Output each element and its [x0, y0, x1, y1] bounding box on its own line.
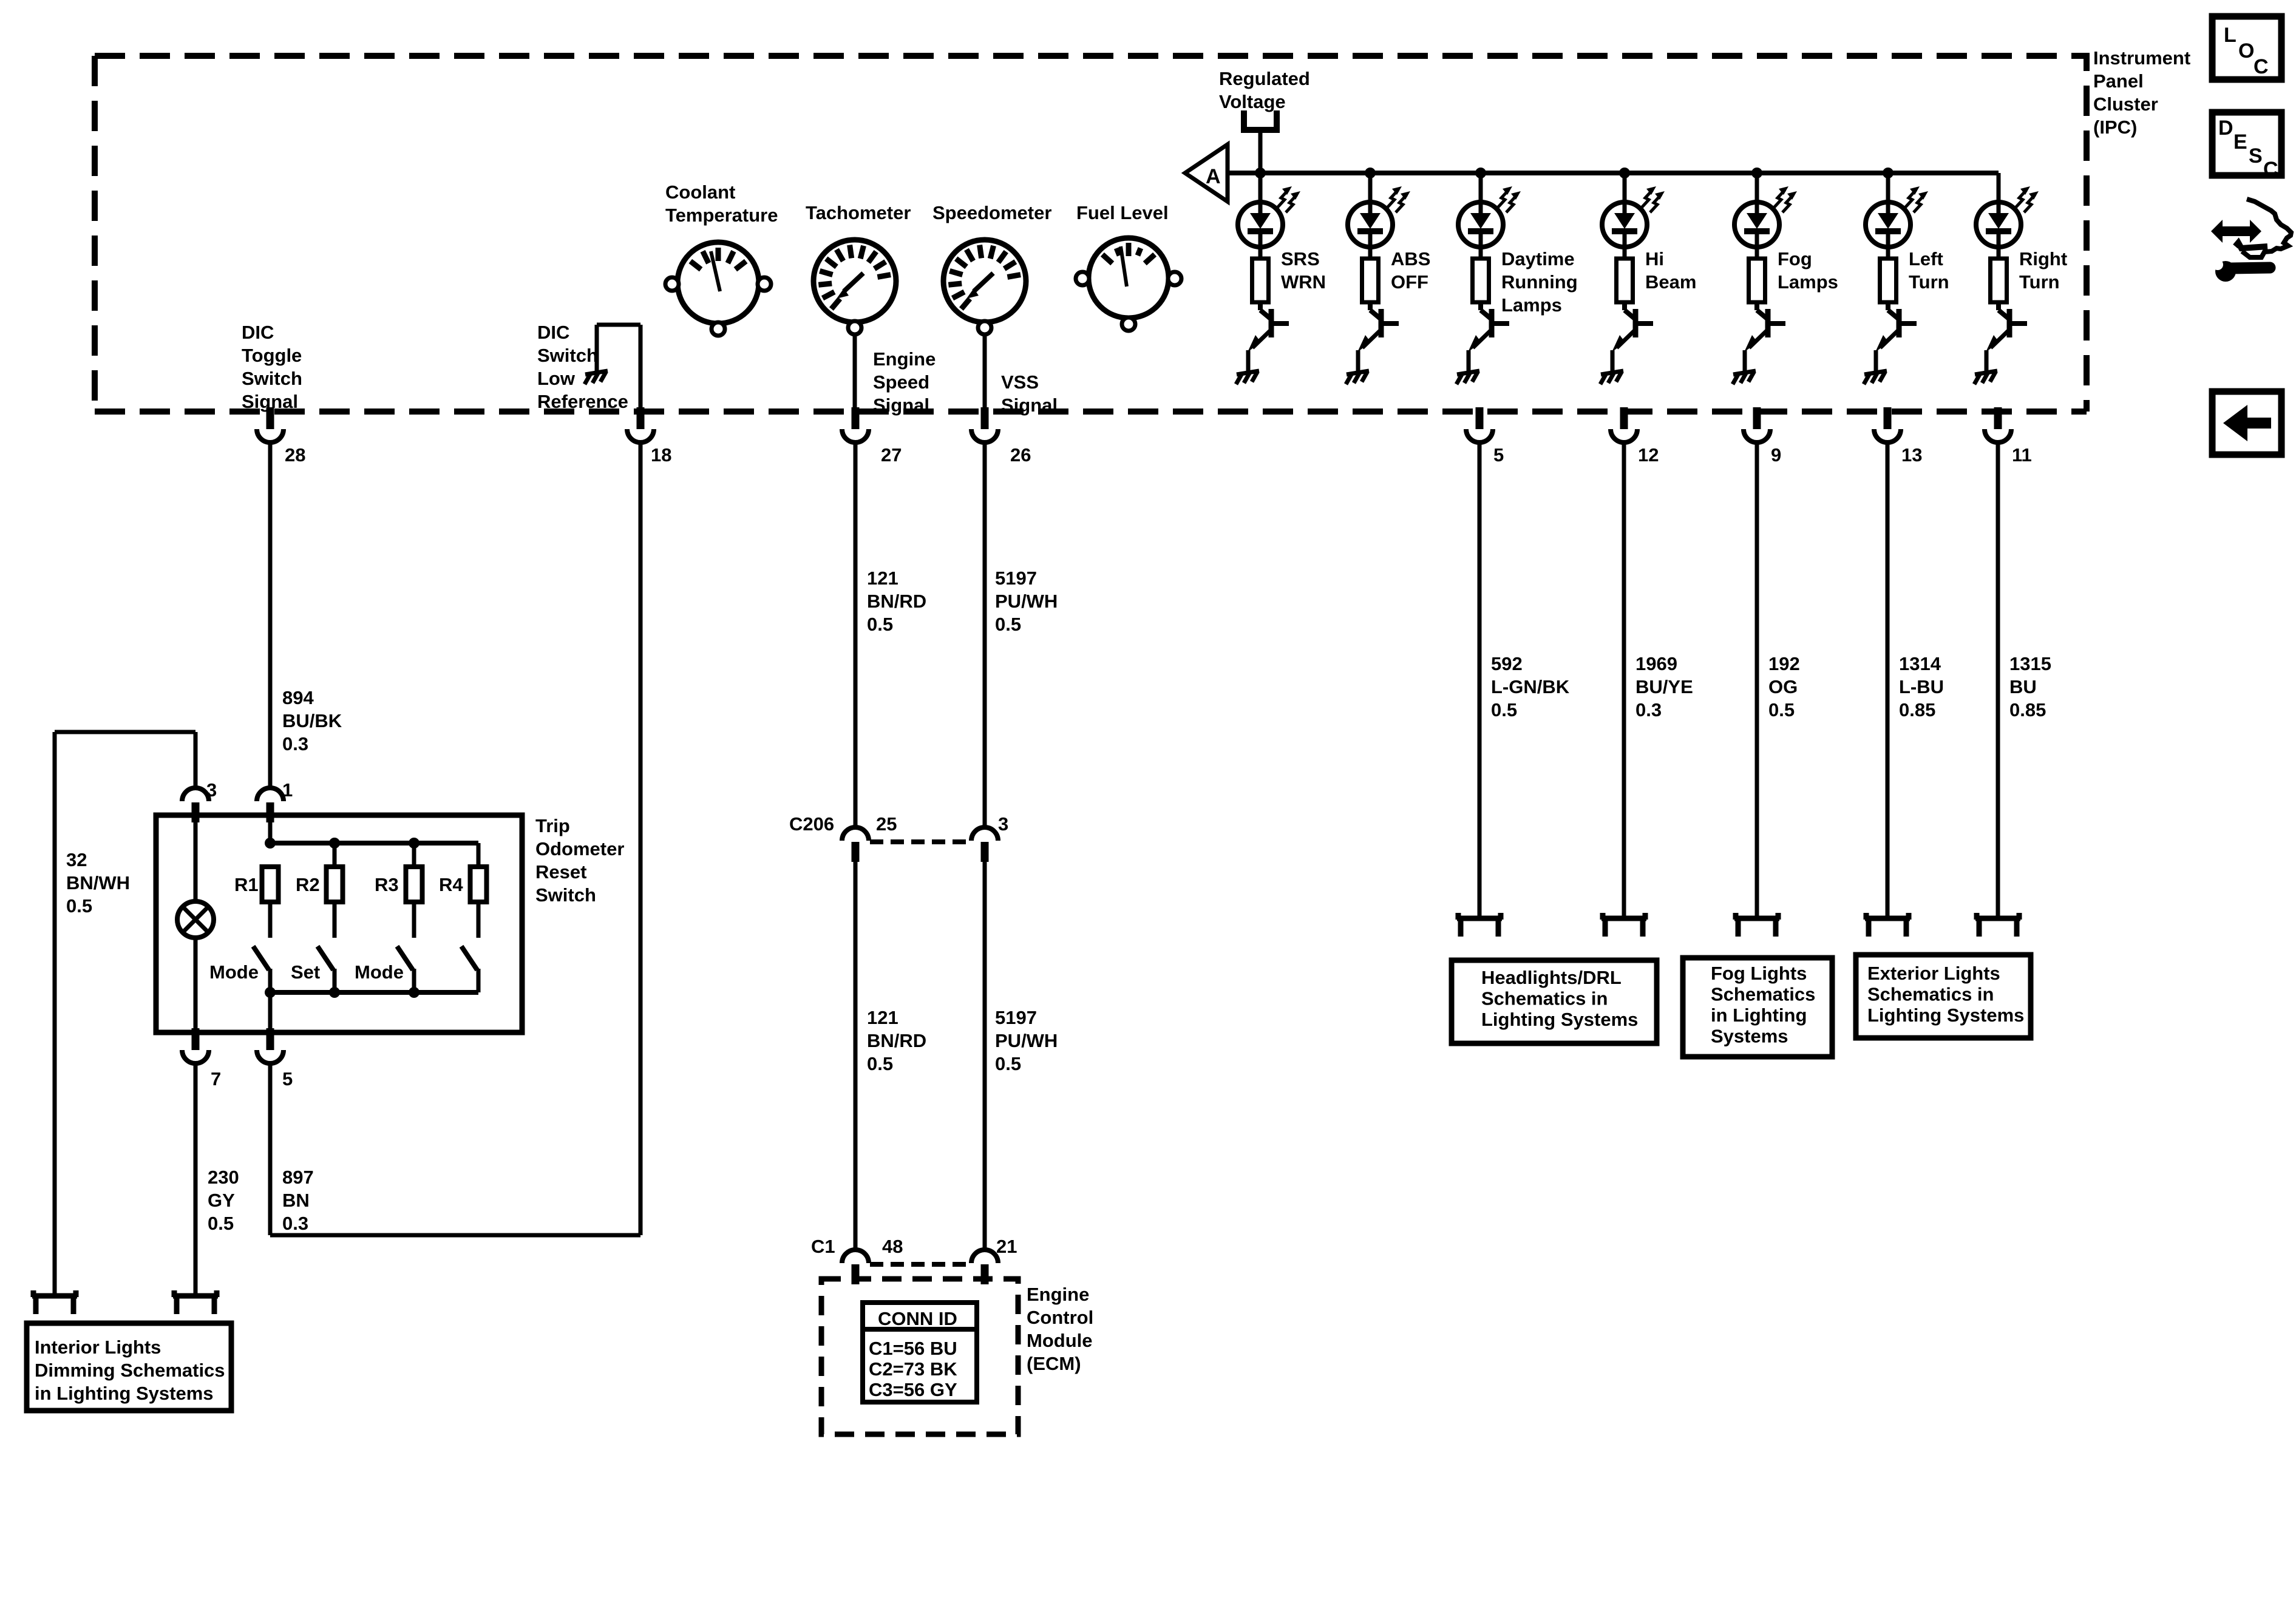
svg-text:21: 21 — [996, 1236, 1017, 1257]
svg-text:0.3: 0.3 — [282, 733, 308, 754]
transistor driver (Fog Lamps) — [1754, 302, 1759, 310]
resistor (Left Turn) — [1880, 259, 1897, 302]
svg-text:5: 5 — [282, 1068, 293, 1090]
resistor (Fog Lamps) — [1749, 259, 1765, 302]
svg-text:Tachometer: Tachometer — [806, 202, 911, 223]
svg-text:28: 28 — [285, 444, 305, 466]
svg-text:0.5: 0.5 — [995, 614, 1021, 635]
svg-text:Toggle: Toggle — [242, 345, 302, 366]
CONN ID table — [863, 1303, 977, 1402]
wire LED to resistor (Daytime Running Lamps) — [1479, 247, 1483, 259]
pin 18 connector at IPC border — [637, 407, 645, 429]
svg-text:R3: R3 — [375, 874, 399, 895]
wire speedometer to pin 26 — [983, 334, 987, 409]
transistor driver (Daytime Running Lamps) — [1478, 302, 1483, 310]
svg-text:BN: BN — [282, 1190, 310, 1211]
resistor (Hi Beam) — [1617, 259, 1633, 302]
svg-text:Mode: Mode — [355, 961, 404, 983]
svg-text:Engine: Engine — [1027, 1284, 1089, 1305]
LED indicator (Right Turn) — [1976, 202, 2021, 247]
voltage bus wire — [1228, 171, 1999, 175]
wire LED to resistor (Fog Lamps) — [1755, 247, 1759, 259]
off-page terminal for wire 192 — [1734, 916, 1779, 921]
svg-text:3: 3 — [998, 813, 1008, 835]
connector C206 pin 25 — [842, 827, 869, 841]
svg-text:OFF: OFF — [1391, 271, 1428, 293]
wire 894 BU/BK 0.3 from pin 28 to trip switch pin 1 — [268, 442, 273, 788]
svg-text:Fog Lights: Fog Lights — [1711, 963, 1807, 984]
svg-text:BU/YE: BU/YE — [1635, 676, 1693, 697]
trip switch pin 5 — [267, 1028, 274, 1050]
transistor driver (Hi Beam) — [1622, 302, 1627, 310]
trip switch pin 3 — [182, 788, 209, 801]
connector C1 pin 21 — [971, 1250, 998, 1263]
svg-text:Right: Right — [2019, 248, 2067, 269]
svg-text:C1=56 BU: C1=56 BU — [869, 1338, 957, 1359]
LED indicator (ABS OFF) — [1348, 202, 1393, 247]
svg-text:0.5: 0.5 — [867, 1053, 893, 1074]
LED indicator (Daytime Running Lamps) — [1458, 202, 1503, 247]
svg-text:121: 121 — [867, 568, 898, 589]
wire LED to resistor (Left Turn) — [1886, 247, 1890, 259]
svg-text:Lighting Systems: Lighting Systems — [1481, 1009, 1638, 1030]
svg-text:Odometer: Odometer — [535, 838, 624, 859]
wire LED to resistor (Right Turn) — [1997, 247, 2001, 259]
pin 28 connector at IPC border — [267, 407, 274, 429]
svg-text:L-GN/BK: L-GN/BK — [1491, 676, 1570, 697]
wire 5197 PU/WH 0.5 C206 to ECM C1 pin 21 — [983, 862, 987, 1250]
diagnostic hand-wrench icon — [2211, 220, 2261, 243]
svg-text:25: 25 — [876, 813, 897, 835]
Engine Control Module (ECM) dashed box — [821, 1279, 1018, 1434]
pin 26 connector at IPC border — [981, 407, 989, 429]
svg-text:Reference: Reference — [537, 391, 628, 412]
svg-text:1314: 1314 — [1899, 653, 1941, 674]
switch Mode 2 blade — [397, 946, 413, 970]
svg-text:Signal: Signal — [873, 395, 929, 416]
svg-text:Lamps: Lamps — [1501, 294, 1562, 316]
svg-text:S: S — [2249, 144, 2263, 168]
pin 13 connector at IPC border — [1884, 407, 1892, 429]
wire bus to LED (ABS OFF) — [1368, 173, 1373, 202]
svg-text:(ECM): (ECM) — [1027, 1353, 1081, 1374]
svg-text:0.5: 0.5 — [66, 895, 92, 917]
off-page terminal wire 230 GY — [173, 1293, 218, 1299]
wire 121 BN/RD 0.5 C206 to ECM C1 pin 48 — [854, 862, 858, 1250]
svg-text:BN/WH: BN/WH — [66, 872, 130, 893]
svg-text:Panel: Panel — [2093, 70, 2144, 92]
svg-text:Low: Low — [537, 368, 576, 389]
wire 192 OG 0.5 from pin 9 — [1755, 442, 1759, 918]
Trip Odometer Reset Switch box — [156, 815, 522, 1032]
svg-text:Dimming Schematics: Dimming Schematics — [35, 1360, 225, 1381]
svg-text:GY: GY — [208, 1190, 235, 1211]
wire bus to LED (Right Turn) — [1997, 173, 2001, 202]
junction dot at Left branch — [1883, 168, 1894, 178]
svg-text:11: 11 — [2012, 444, 2032, 466]
svg-text:Schematics in: Schematics in — [1867, 984, 1994, 1005]
internal wire from ground to pin 18 — [639, 325, 643, 409]
transistor driver (SRS WRN) — [1258, 302, 1263, 310]
svg-text:L-BU: L-BU — [1899, 676, 1944, 697]
svg-text:Headlights/DRL: Headlights/DRL — [1481, 967, 1622, 988]
svg-text:R4: R4 — [439, 874, 463, 895]
svg-text:1969: 1969 — [1635, 653, 1677, 674]
junction dot at ABS branch — [1365, 168, 1376, 178]
svg-text:Fuel Level: Fuel Level — [1076, 202, 1169, 223]
wire LED to resistor (SRS WRN) — [1258, 247, 1263, 259]
Headlights/DRL Schematics box — [1452, 960, 1657, 1043]
pin 11 connector at IPC border — [1994, 407, 2002, 429]
wire 897 BN 0.3 vertical run from pin 18 — [639, 442, 643, 1235]
transistor driver (ABS OFF) — [1368, 302, 1373, 310]
wire tachometer to pin 27 — [853, 334, 857, 409]
svg-text:Reset: Reset — [535, 861, 586, 883]
resistor (ABS OFF) — [1362, 259, 1379, 302]
resistor (SRS WRN) — [1252, 259, 1269, 302]
svg-text:0.3: 0.3 — [1635, 699, 1662, 720]
wire LED to resistor (Hi Beam) — [1623, 247, 1627, 259]
LED indicator (Hi Beam) — [1602, 202, 1647, 247]
svg-text:Exterior Lights: Exterior Lights — [1867, 963, 2000, 984]
off-page terminal for wire 592 — [1457, 916, 1502, 921]
svg-text:C2=73 BK: C2=73 BK — [869, 1358, 957, 1380]
svg-text:C3=56 GY: C3=56 GY — [869, 1379, 957, 1400]
svg-text:Left: Left — [1909, 248, 1943, 269]
svg-text:27: 27 — [881, 444, 902, 466]
svg-text:A: A — [1206, 165, 1221, 188]
svg-text:592: 592 — [1491, 653, 1523, 674]
svg-text:PU/WH: PU/WH — [995, 591, 1058, 612]
wire bus to LED (Daytime Running Lamps) — [1479, 173, 1483, 202]
wire regulated voltage to bus — [1258, 130, 1263, 173]
svg-text:12: 12 — [1638, 444, 1659, 466]
junction dot at Fog branch — [1751, 168, 1762, 178]
DESC navigation box — [2212, 112, 2281, 175]
svg-text:5: 5 — [1493, 444, 1504, 466]
svg-text:BN/RD: BN/RD — [867, 591, 926, 612]
svg-text:0.5: 0.5 — [208, 1213, 234, 1234]
svg-text:0.85: 0.85 — [2009, 699, 2046, 720]
svg-text:Interior Lights: Interior Lights — [35, 1337, 161, 1358]
svg-text:Lighting Systems: Lighting Systems — [1867, 1005, 2024, 1026]
svg-text:O: O — [2238, 39, 2254, 63]
transistor driver (Right Turn) — [1996, 302, 2001, 310]
svg-text:Beam: Beam — [1645, 271, 1696, 293]
pin 12 connector at IPC border — [1620, 407, 1628, 429]
svg-text:Coolant: Coolant — [665, 181, 735, 203]
svg-text:Lamps: Lamps — [1778, 271, 1838, 293]
svg-text:D: D — [2218, 117, 2233, 140]
svg-text:32: 32 — [66, 849, 87, 870]
svg-text:230: 230 — [208, 1167, 239, 1188]
svg-text:Turn: Turn — [2019, 271, 2060, 293]
svg-text:121: 121 — [867, 1007, 898, 1028]
junction dot at SRS branch — [1255, 168, 1266, 178]
svg-text:SRS: SRS — [1281, 248, 1320, 269]
junction dot at Daytime branch — [1475, 168, 1486, 178]
svg-text:C206: C206 — [789, 813, 834, 835]
svg-text:C1: C1 — [811, 1236, 835, 1257]
off-page terminal wire 32 BN/WH — [32, 1293, 77, 1299]
svg-text:5197: 5197 — [995, 1007, 1037, 1028]
svg-text:C: C — [2254, 55, 2269, 78]
svg-text:Switch: Switch — [537, 345, 598, 366]
wire bus to LED (Left Turn) — [1886, 173, 1890, 202]
resistor (Daytime Running Lamps) — [1473, 259, 1489, 302]
svg-text:Schematics in: Schematics in — [1481, 988, 1608, 1009]
svg-text:BU: BU — [2009, 676, 2037, 697]
svg-text:R1: R1 — [234, 874, 259, 895]
wire bus to LED (SRS WRN) — [1258, 173, 1263, 202]
svg-text:0.5: 0.5 — [867, 614, 893, 635]
svg-text:1315: 1315 — [2009, 653, 2051, 674]
svg-text:in Lighting Systems: in Lighting Systems — [35, 1383, 214, 1404]
connector C206 pin 3 — [971, 827, 998, 841]
LED indicator (Fog Lamps) — [1734, 202, 1779, 247]
svg-text:C: C — [2263, 158, 2278, 181]
off-page terminal for wire 1315 — [1975, 916, 2020, 921]
svg-text:3: 3 — [206, 779, 217, 801]
trip switch bottom bus — [270, 990, 478, 995]
svg-text:Voltage: Voltage — [1219, 91, 1286, 112]
connector C1 dashed body — [870, 1262, 970, 1267]
svg-text:Running: Running — [1501, 271, 1578, 293]
wire corner from pin 18 run to trip switch pin 5 — [270, 1233, 640, 1238]
wire 5197 PU/WH 0.5 pin 26 to C206 pin 3 — [983, 442, 987, 827]
svg-text:Set: Set — [291, 961, 320, 983]
Exterior Lights Schematics box — [1856, 955, 2031, 1038]
svg-text:Speedometer: Speedometer — [932, 202, 1051, 223]
transistor driver (Left Turn) — [1886, 302, 1890, 310]
LOC navigation box — [2212, 16, 2281, 80]
trip switch resistor top bus — [268, 822, 273, 843]
svg-text:13: 13 — [1901, 444, 1922, 466]
svg-text:Speed: Speed — [873, 371, 929, 393]
wire 1315 BU 0.85 from pin 11 — [1996, 442, 2000, 918]
svg-text:in Lighting: in Lighting — [1711, 1005, 1807, 1026]
svg-text:894: 894 — [282, 687, 314, 708]
Fog Lights Schematics box — [1683, 958, 1832, 1057]
wire LED to resistor (ABS OFF) — [1368, 247, 1373, 259]
LED indicator (Left Turn) — [1866, 202, 1911, 247]
ground inside IPC for DIC switch low reference — [585, 371, 608, 374]
svg-text:Control: Control — [1027, 1307, 1093, 1328]
wire 121 BN/RD 0.5 pin 27 to C206 pin 25 — [854, 442, 858, 827]
wire bus to LED (Fog Lamps) — [1755, 173, 1759, 202]
svg-text:BN/RD: BN/RD — [867, 1030, 926, 1051]
junction dot at Hi branch — [1619, 168, 1630, 178]
svg-text:(IPC): (IPC) — [2093, 117, 2137, 138]
svg-text:Schematics: Schematics — [1711, 984, 1815, 1005]
svg-text:Engine: Engine — [873, 348, 936, 370]
trip switch pin 7 — [192, 1028, 200, 1050]
svg-text:897: 897 — [282, 1167, 314, 1188]
svg-text:Instrument: Instrument — [2093, 47, 2190, 69]
wire 592 L-GN/BK 0.5 from pin 5 — [1478, 442, 1482, 918]
wire 1314 L-BU 0.85 from pin 13 — [1886, 442, 1890, 918]
svg-text:Systems: Systems — [1711, 1026, 1788, 1047]
pin 5 connector at IPC border — [1476, 407, 1484, 429]
off-page terminal for wire 1969 — [1601, 916, 1646, 921]
svg-text:L: L — [2224, 24, 2237, 47]
svg-text:7: 7 — [211, 1068, 221, 1090]
svg-text:1: 1 — [282, 779, 293, 801]
svg-text:ABS: ABS — [1391, 248, 1430, 269]
node A triangle off-page reference — [1185, 144, 1228, 202]
back arrow navigation box — [2212, 391, 2281, 455]
svg-text:0.3: 0.3 — [282, 1213, 308, 1234]
svg-text:Hi: Hi — [1645, 248, 1664, 269]
off-page terminal for wire 1314 — [1865, 916, 1910, 921]
svg-text:BU/BK: BU/BK — [282, 710, 342, 731]
LED indicator (SRS WRN) — [1238, 202, 1283, 247]
switch 4 blade — [461, 946, 477, 970]
svg-text:DIC: DIC — [537, 322, 569, 343]
resistor (Right Turn) — [1991, 259, 2007, 302]
svg-text:192: 192 — [1768, 653, 1800, 674]
Interior Lights Dimming box — [27, 1323, 231, 1411]
svg-text:Mode: Mode — [209, 961, 259, 983]
svg-text:48: 48 — [882, 1236, 903, 1257]
svg-text:Temperature: Temperature — [665, 205, 778, 226]
svg-text:0.5: 0.5 — [1491, 699, 1517, 720]
svg-text:Signal: Signal — [1001, 395, 1058, 416]
svg-text:OG: OG — [1768, 676, 1798, 697]
connector C1 pin 48 — [842, 1250, 869, 1263]
svg-text:Module: Module — [1027, 1330, 1093, 1351]
wire bus to LED (Hi Beam) — [1623, 173, 1627, 202]
Instrument Panel Cluster (IPC) dashed enclosure — [95, 56, 2087, 412]
svg-text:Trip: Trip — [535, 815, 570, 836]
svg-text:Turn: Turn — [1909, 271, 1949, 293]
svg-text:WRN: WRN — [1281, 271, 1326, 293]
trip switch pin 1 — [257, 788, 284, 801]
svg-text:Regulated: Regulated — [1219, 68, 1310, 89]
pin 9 connector at IPC border — [1753, 407, 1761, 429]
svg-text:Cluster: Cluster — [2093, 93, 2158, 115]
svg-text:CONN ID: CONN ID — [878, 1308, 957, 1329]
switch Set blade — [318, 946, 333, 970]
svg-text:Daytime: Daytime — [1501, 248, 1575, 269]
svg-text:Switch: Switch — [535, 884, 596, 906]
svg-text:R2: R2 — [296, 874, 320, 895]
svg-text:18: 18 — [651, 444, 671, 466]
svg-text:26: 26 — [1010, 444, 1031, 466]
svg-text:E: E — [2233, 130, 2247, 154]
svg-text:DIC: DIC — [242, 322, 274, 343]
svg-text:9: 9 — [1771, 444, 1781, 466]
wire 1969 BU/YE 0.3 from pin 12 — [1622, 442, 1626, 918]
svg-text:Fog: Fog — [1778, 248, 1812, 269]
illumination lamp in trip switch — [194, 822, 198, 901]
svg-text:5197: 5197 — [995, 568, 1037, 589]
svg-text:PU/WH: PU/WH — [995, 1030, 1058, 1051]
connector C206 dashed body — [870, 839, 970, 844]
wire 897 BN 0.3 pin 5 down to corner — [268, 1063, 273, 1235]
svg-text:0.5: 0.5 — [1768, 699, 1795, 720]
wire 32 BN/WH 0.5 loop from trip switch pin 3 to interior lights — [194, 732, 198, 788]
svg-text:VSS: VSS — [1001, 371, 1039, 393]
regulated voltage rail bracket — [1244, 110, 1277, 130]
pin 27 connector at IPC border — [852, 407, 860, 429]
svg-text:0.85: 0.85 — [1899, 699, 1935, 720]
wire 230 GY 0.5 pin 7 to interior lights — [194, 1063, 198, 1296]
svg-text:Switch: Switch — [242, 368, 302, 389]
switch Mode 1 blade — [253, 946, 269, 970]
svg-text:0.5: 0.5 — [995, 1053, 1021, 1074]
